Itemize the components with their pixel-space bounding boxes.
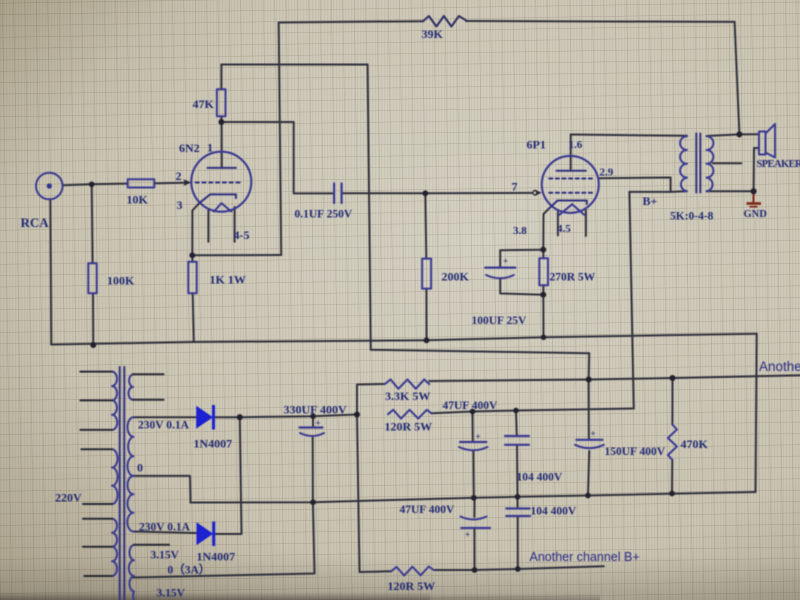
mains transformer heater winding B	[129, 545, 134, 600]
node PSU ground / 104-2	[515, 494, 521, 500]
node channel B line / 47UF-2	[472, 567, 478, 573]
svg-text:104 400V: 104 400V	[517, 472, 563, 484]
svg-text:0: 0	[137, 461, 143, 475]
svg-text:3.15V: 3.15V	[151, 550, 180, 562]
node 330UF top	[310, 413, 316, 419]
wire preamp B+ top horizontal	[221, 64, 367, 66]
svg-text:47UF 400V: 47UF 400V	[443, 400, 499, 412]
ground symbol GND	[747, 191, 762, 206]
wire 6P1 plate 2.9 to OPT primary bottom	[598, 178, 686, 192]
node PSU ground / 150UF bottom	[585, 493, 591, 499]
wire 200K top lead	[425, 193, 426, 258]
node speaker minus / GND	[751, 188, 757, 194]
wire 120R second left riser	[357, 415, 391, 573]
wire 47UF-2 bottom lead	[473, 528, 475, 570]
wire Another channel B+ line	[434, 566, 604, 570]
svg-text:7: 7	[512, 180, 518, 194]
svg-text:200K: 200K	[442, 270, 470, 284]
wire RCA to junction	[63, 184, 128, 186]
svg-text:4-5: 4-5	[234, 228, 250, 242]
wire preamp B+ right vertical long	[368, 65, 371, 350]
svg-text:6P1: 6P1	[527, 138, 546, 152]
svg-text:SPEAKER: SPEAKER	[757, 159, 800, 170]
svg-text:470K: 470K	[681, 437, 709, 451]
wire ground bus right vertical	[756, 334, 757, 492]
wire 47UF-1 top lead	[472, 412, 474, 443]
tube 6N2 plate bar	[208, 167, 236, 169]
wire diode D2 input from 230V tap	[133, 532, 196, 534]
svg-text:104 400V: 104 400V	[531, 506, 577, 518]
wire preamp B+ lower horizontal	[371, 350, 589, 353]
RCA jack	[36, 173, 63, 200]
wire 270R bottom lead	[542, 285, 544, 337]
tube 6P1 heater chevron	[559, 204, 584, 215]
node B+ / 104-1	[513, 408, 519, 414]
tube 6P1 cathode bracket	[549, 201, 587, 209]
capacitor 47UF 400V first plates	[460, 441, 486, 443]
tube 6N2 grid (dashed)	[196, 182, 241, 184]
wire RCA ground drop	[49, 200, 52, 345]
resistor 39K (zigzag)	[423, 16, 466, 27]
mains transformer primary winding section 1	[112, 372, 117, 430]
wire B+ to OPT node	[629, 191, 670, 193]
wire speaker bottom lead	[754, 148, 759, 191]
svg-text:3.8: 3.8	[513, 225, 527, 237]
capacitor 150UF 400V plates	[576, 439, 602, 441]
node 6P1 cathode top	[540, 247, 546, 253]
svg-text:1N4007: 1N4007	[194, 437, 233, 451]
svg-text:39K: 39K	[422, 27, 444, 41]
node 6P1 grid / 200K	[422, 190, 428, 196]
svg-text:3.3K 5W: 3.3K 5W	[385, 389, 430, 403]
svg-text:Another: Another	[759, 359, 800, 374]
svg-text:5K:0-4-8: 5K:0-4-8	[670, 211, 714, 223]
node PSU ground / 330UF bottom	[310, 499, 316, 505]
node channel B line / 104-2	[515, 566, 521, 572]
wire 100K top lead	[91, 184, 94, 263]
mains transformer core	[120, 367, 125, 600]
tube 6N2 heater chevron	[214, 203, 231, 211]
wire 6P1 heater pin 4	[557, 212, 559, 235]
arrow into 6N2 grid pin 2	[183, 179, 191, 186]
wire 6N2 heater pin 5	[234, 207, 236, 242]
svg-text:47K: 47K	[193, 97, 215, 111]
wire 330UF top stub	[312, 416, 314, 427]
wire 200K bottom lead	[425, 289, 427, 341]
speaker symbol	[759, 132, 766, 155]
svg-text:RCA: RCA	[21, 215, 50, 230]
arrow into 6P1 grid pin 7	[533, 190, 542, 196]
resistor 10K (box)	[128, 179, 155, 187]
svg-text:Another channel B+: Another channel B+	[530, 550, 640, 564]
node 6N2 cathode / 1K / feedback	[189, 252, 195, 258]
node Another line / 150UF	[586, 376, 592, 382]
svg-text:1N4007: 1N4007	[197, 550, 236, 564]
node B+ / 47UF-1	[470, 409, 476, 415]
resistor 1K 1W (box)	[188, 262, 196, 294]
svg-text:230V 0.1A: 230V 0.1A	[139, 522, 191, 534]
wire 6P1 pin 1.6 riser	[570, 135, 572, 171]
OPT secondary coil	[707, 136, 714, 191]
tube 6P1 control grid (dashed)	[549, 192, 592, 194]
svg-text:GND: GND	[744, 209, 768, 220]
wire 470K bottom lead	[671, 460, 673, 494]
svg-text:6N2: 6N2	[179, 141, 200, 155]
wire 100UF top link	[500, 250, 543, 268]
wire 104-1 top lead	[515, 411, 518, 437]
resistor 47K (box)	[217, 89, 226, 116]
mains transformer 3.15V stub lead	[134, 544, 169, 546]
svg-text:+: +	[316, 418, 321, 428]
svg-text:120R 5W: 120R 5W	[388, 579, 436, 593]
wire 6P1 pin 1.6 to OPT primary top	[571, 135, 687, 136]
svg-text:10K: 10K	[127, 193, 149, 207]
wire 47UF-2 top lead	[473, 498, 475, 517]
wire Another line (after 3.3K)	[429, 375, 800, 381]
mains transformer primary stub leads	[80, 371, 112, 373]
resistor 470K (vertical zigzag)	[668, 425, 677, 460]
diode D2 1N4007	[197, 522, 214, 547]
svg-text:3: 3	[177, 198, 183, 212]
wire 100UF bottom link	[500, 279, 543, 295]
wire 6N2 heater pin 4	[207, 209, 209, 242]
node 6N2 plate / 47K	[218, 119, 224, 125]
wire 150UF top lead	[588, 380, 590, 440]
svg-text:1.6: 1.6	[569, 139, 583, 151]
node rectifier output	[237, 414, 243, 420]
wire 47UF-1 bottom lead	[472, 451, 475, 498]
svg-text:+: +	[591, 429, 596, 439]
wire feedback left vertical down to 6N2 cathode	[279, 23, 282, 256]
capacitor 104 400V second plates	[506, 509, 530, 517]
wire 1K top lead	[191, 255, 193, 261]
wire PSU ground to transformer 0 tap	[133, 476, 191, 503]
svg-text:2: 2	[176, 169, 182, 183]
resistor 120R 5W second (zigzag)	[391, 567, 433, 576]
mains transformer primary winding section 2	[112, 449, 118, 504]
svg-text:0.1UF 250V: 0.1UF 250V	[295, 209, 353, 221]
tube 6P1 screen grid (dashed)	[549, 178, 592, 180]
resistor 120R 5W (zigzag)	[388, 410, 432, 419]
wire 6P1 heater pin 5	[585, 210, 587, 236]
mains transformer heater winding A	[129, 374, 134, 400]
svg-text:1K 1W: 1K 1W	[210, 273, 246, 287]
tube 6N2 cathode bracket	[199, 194, 236, 203]
wire 6N2 cathode to feedback vertical	[192, 254, 281, 256]
tube 6N2 envelope	[191, 152, 251, 212]
resistor 270R 5W (box)	[539, 258, 548, 285]
wire 100K bottom lead	[92, 293, 94, 345]
wire diode D2 output join	[214, 417, 242, 534]
resistor 200K (box)	[422, 259, 431, 289]
node filter split	[354, 411, 360, 417]
wire OPT secondary bottom	[707, 190, 754, 192]
wire 104-1 bottom lead	[516, 445, 519, 497]
wire 3.3K left riser	[357, 384, 385, 415]
wire 47K bottom lead	[220, 116, 222, 122]
svg-text:47UF 400V: 47UF 400V	[400, 504, 456, 516]
mains transformer HT winding	[127, 417, 133, 531]
resistor 100K (box)	[88, 263, 96, 293]
wire OPT secondary top to speaker	[707, 134, 760, 136]
OPT core	[696, 134, 700, 193]
node 6P1 cathode bottom	[540, 292, 546, 298]
wire 6N2 plate vertical	[221, 122, 223, 168]
svg-text:230V 0.1A: 230V 0.1A	[138, 420, 190, 432]
svg-text:270R 5W: 270R 5W	[550, 272, 596, 284]
capacitor 104 400V first plates	[505, 436, 529, 445]
wire PSU ground bus	[191, 492, 756, 503]
svg-text:0（3A）: 0（3A）	[168, 563, 211, 577]
svg-text:100UF 25V: 100UF 25V	[472, 315, 528, 327]
svg-text:+: +	[465, 530, 470, 540]
wire B+ filter line	[432, 409, 634, 414]
node 100K to ground bus	[90, 342, 96, 348]
wire 6N2 cathode lead	[192, 203, 199, 255]
capacitor 47UF 400V second plates (inverted)	[461, 517, 487, 520]
node speaker plus / feedback	[736, 131, 742, 137]
wire main ground bus	[51, 334, 756, 345]
wire 1K bottom lead	[193, 293, 194, 342]
capacitor 0.1UF 250V plates	[334, 184, 342, 204]
wire 6P1 cathode lead	[543, 209, 549, 250]
mains transformer primary winding section 3	[112, 519, 117, 576]
node Another line / 470K	[669, 375, 675, 381]
resistor 3.3K 5W (zigzag)	[385, 379, 429, 388]
wire 150UF bottom lead	[588, 451, 589, 496]
wire 104-2 bottom lead	[517, 516, 519, 569]
wire diode D1 input from 230V tap	[133, 416, 196, 418]
wire 104-2 top lead	[517, 497, 519, 509]
wire preamp B+ drop to Another line	[588, 353, 591, 379]
wire 330UF bottom and heater CT riser	[133, 438, 315, 578]
OPT primary coil	[680, 136, 687, 191]
diode D1 1N4007	[196, 405, 213, 430]
wire OPT secondary tap 0-4-8	[713, 162, 742, 164]
svg-text:+: +	[476, 432, 481, 442]
svg-text:2.9: 2.9	[600, 167, 614, 179]
node PSU ground / 47UF-2	[471, 495, 477, 501]
wire B+ vertical	[629, 192, 633, 409]
node input junction (RCA/10K/100K)	[89, 181, 95, 187]
wire feedback right vertical to speaker node	[735, 22, 740, 134]
wire coupling cap to 6P1 grid	[342, 192, 532, 194]
wire diode D1 output to first node	[214, 415, 357, 418]
capacitor 330UF 400V plates	[300, 426, 323, 428]
wire 470K top lead	[671, 378, 673, 425]
capacitor 100UF 25V plates	[485, 267, 515, 269]
mains transformer heater A stub leads	[133, 373, 164, 375]
svg-text:330UF 400V: 330UF 400V	[284, 403, 348, 417]
svg-text:+: +	[503, 256, 508, 266]
wire 270R top lead	[542, 250, 544, 259]
tube 6P1 plate bar	[557, 170, 586, 172]
svg-text:220V: 220V	[55, 491, 82, 505]
svg-text:B+: B+	[643, 194, 658, 208]
wire top feedback line left part	[279, 21, 423, 22]
wire 6N2 plate to coupling cap	[221, 122, 334, 193]
svg-text:150UF 400V: 150UF 400V	[605, 446, 666, 458]
svg-text:4.5: 4.5	[557, 223, 571, 235]
tube 6P1 envelope	[542, 156, 599, 213]
node 270R to ground bus	[541, 335, 547, 341]
node 200K to ground bus	[424, 337, 430, 343]
svg-text:100K: 100K	[107, 274, 135, 288]
svg-text:1: 1	[207, 141, 213, 155]
svg-text:3.15V: 3.15V	[157, 588, 186, 600]
node PSU ground / 470K bottom	[669, 491, 675, 497]
wire 10K to 6N2 grid	[154, 182, 185, 185]
wire top feedback line right part	[466, 20, 735, 23]
svg-text:120R 5W: 120R 5W	[385, 420, 433, 434]
wire 47K top lead	[220, 65, 222, 90]
